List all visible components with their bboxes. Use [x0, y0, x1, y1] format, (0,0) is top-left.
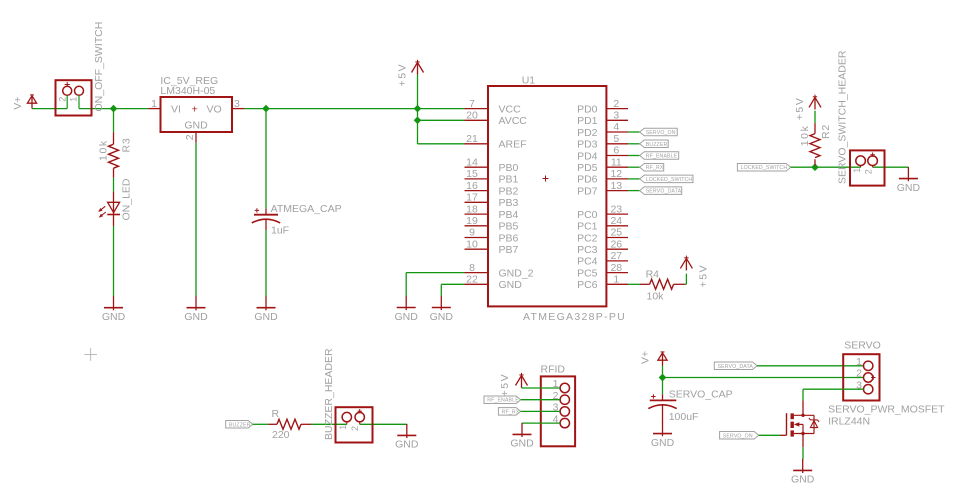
wire R2 to +5V	[814, 111, 816, 123]
svg-text:ON_OFF_SWITCH: ON_OFF_SWITCH	[93, 22, 105, 112]
svg-text:SERVO_ON: SERVO_ON	[723, 433, 753, 439]
svg-text:+5V: +5V	[794, 97, 806, 121]
svg-text:21: 21	[466, 133, 478, 145]
svg-text:PD5: PD5	[577, 162, 598, 174]
svg-text:12: 12	[610, 168, 622, 180]
wire mosfet source to ground	[802, 434, 804, 460]
node RF_ENABLE net flag	[484, 396, 521, 404]
wire SERVO_CAP to ground	[662, 422, 664, 424]
wire to AREF pin	[418, 143, 465, 145]
svg-text:9: 9	[469, 227, 475, 239]
wire V+ rail to switch pin 2	[32, 108, 67, 110]
svg-text:10k: 10k	[799, 125, 811, 147]
svg-text:PB4: PB4	[499, 209, 519, 221]
transistor Q1 SERVO_PWR_MOSFET IRLZ44N	[787, 401, 946, 437]
svg-text:18: 18	[466, 203, 478, 215]
svg-text:RF_ENABLE: RF_ENABLE	[646, 154, 678, 160]
ground GND buzzer	[395, 424, 419, 451]
svg-text:GND: GND	[102, 311, 126, 323]
wire rail down to ATMEGA_CAP	[265, 109, 267, 209]
wire GND_2 pin 8 to ground	[406, 273, 464, 297]
power V+ supply arrow	[12, 95, 37, 110]
wire PD pin to LOCKED_SWITCH flag	[628, 178, 640, 180]
svg-text:GND: GND	[395, 439, 419, 451]
svg-text:R4: R4	[646, 269, 660, 281]
svg-text:2: 2	[613, 98, 619, 110]
node origin cross marker	[84, 348, 97, 361]
wire buzzer header pin 2 to ground corner	[360, 423, 407, 425]
svg-text:RF_RX: RF_RX	[646, 165, 664, 171]
wire buzzer header to ground	[406, 423, 408, 425]
svg-text:SERVO_ON: SERVO_ON	[646, 130, 676, 136]
svg-text:SERVO_PWR_MOSFET: SERVO_PWR_MOSFET	[828, 403, 945, 415]
junction node servo V+	[659, 374, 667, 382]
svg-text:GND_2: GND_2	[499, 267, 534, 279]
svg-text:PB0: PB0	[499, 162, 519, 174]
wire PD pin to BUZZER flag	[628, 143, 640, 145]
svg-text:PD7: PD7	[577, 185, 598, 197]
svg-text:+5V: +5V	[499, 373, 511, 397]
ground GND servo switch	[897, 167, 921, 194]
node RF_RX net flag	[498, 408, 520, 416]
wire PD pin to SERVO_DATA flag	[628, 190, 640, 192]
svg-text:GND: GND	[395, 311, 419, 323]
node SERVO_DATA net flag	[640, 187, 682, 195]
svg-text:AVCC: AVCC	[499, 115, 528, 127]
wire BUZZER flag to resistor	[253, 423, 269, 425]
ground GND for pin 22	[430, 296, 454, 323]
wire junction down to R3	[113, 109, 115, 133]
capacitor SERVO_CAP 100uF polarized	[648, 389, 732, 423]
svg-text:GND: GND	[184, 311, 208, 323]
svg-text:PB6: PB6	[499, 232, 519, 244]
svg-text:V+: V+	[639, 351, 651, 364]
svg-text:23: 23	[610, 203, 622, 215]
svg-text:2: 2	[856, 368, 862, 380]
svg-text:2: 2	[350, 426, 360, 431]
wire LOCKED_SWITCH to switch pin 1	[791, 166, 861, 168]
svg-text:BUZZER: BUZZER	[646, 142, 668, 148]
power +5V arrow at RFID pin 1	[499, 373, 528, 397]
wire GND pin 22 to ground	[441, 284, 464, 296]
svg-text:PB1: PB1	[499, 174, 519, 186]
svg-text:ATMEGA_CAP: ATMEGA_CAP	[271, 203, 342, 215]
node LOCKED_SWITCH net flag	[737, 163, 790, 171]
ground GND below LED	[102, 296, 126, 323]
svg-text:+5V: +5V	[397, 63, 409, 87]
svg-text:GND: GND	[254, 311, 278, 323]
svg-text:PC6: PC6	[577, 279, 598, 291]
svg-text:17: 17	[466, 192, 478, 204]
svg-text:GND: GND	[184, 120, 208, 132]
wire junction to servo pin 2	[663, 377, 864, 379]
ground GND below regulator	[184, 296, 208, 323]
svg-text:28: 28	[610, 262, 622, 274]
wire SERVO_ON to mosfet gate	[759, 434, 787, 436]
svg-text:SERVO_CAP: SERVO_CAP	[669, 389, 733, 401]
svg-text:11: 11	[611, 156, 622, 168]
svg-text:BUZZER_HEADER: BUZZER_HEADER	[323, 348, 335, 440]
svg-text:PC1: PC1	[577, 221, 598, 233]
junction node AVCC row	[414, 116, 422, 124]
node BUZZER net flag	[226, 421, 253, 429]
svg-text:1: 1	[856, 356, 862, 368]
wire +5V down to AREF row	[417, 75, 419, 144]
svg-text:220: 220	[272, 429, 290, 441]
svg-text:RFID: RFID	[541, 364, 566, 376]
svg-text:SERVO: SERVO	[844, 340, 881, 352]
wire R4 to +5V	[685, 274, 687, 285]
resistor R3 10k	[98, 132, 133, 178]
wire PD pin to RF_RX flag	[628, 166, 640, 168]
wire +5V to RFID pin 1	[522, 387, 561, 390]
ground GND for pin 8	[395, 296, 419, 323]
svg-text:14: 14	[466, 156, 478, 168]
header SERVO_SWITCH_HEADER	[837, 50, 885, 185]
svg-text:GND: GND	[499, 279, 523, 291]
svg-text:25: 25	[610, 227, 622, 239]
svg-text:1: 1	[338, 425, 348, 430]
svg-text:PC2: PC2	[577, 232, 598, 244]
wire RF_ENABLE to RFID pin 2	[521, 399, 561, 401]
wire RF_RX to RFID pin 3	[521, 410, 561, 412]
svg-text:U1: U1	[522, 74, 536, 86]
wire R3 to LED	[113, 178, 115, 192]
svg-text:15: 15	[466, 168, 478, 180]
svg-text:R3: R3	[121, 137, 133, 152]
svg-text:19: 19	[466, 215, 478, 227]
svg-text:IRLZ44N: IRLZ44N	[828, 415, 870, 427]
svg-text:22: 22	[466, 274, 478, 286]
header BUZZER_HEADER	[323, 348, 373, 443]
svg-text:1uF: 1uF	[271, 225, 289, 237]
wire regulator pin 2 to ground	[195, 143, 197, 297]
wire SERVO_DATA to servo pin 1	[757, 365, 864, 367]
svg-text:GND: GND	[897, 182, 921, 194]
svg-text:VO: VO	[207, 103, 222, 115]
svg-text:5: 5	[613, 133, 619, 145]
wire RFID pin 4 to ground	[522, 422, 560, 424]
svg-text:100uF: 100uF	[669, 411, 699, 423]
wire switch pin 1 to regulator pin 1	[79, 108, 148, 110]
IC U1 ATMEGA328P-PU microcontroller	[465, 74, 629, 323]
junction node at switch output	[110, 105, 118, 113]
svg-text:R2: R2	[820, 124, 832, 139]
svg-text:PB3: PB3	[499, 197, 519, 209]
svg-text:1: 1	[69, 97, 79, 102]
svg-text:PB7: PB7	[499, 244, 519, 256]
svg-text:PC0: PC0	[577, 209, 598, 221]
svg-text:RF_ENABLE: RF_ENABLE	[487, 398, 519, 404]
wire resistor to buzzer header pin 1	[311, 423, 347, 425]
node SERVO_ON net flag	[640, 128, 678, 136]
svg-text:SERVO_DATA: SERVO_DATA	[718, 364, 754, 370]
wire switch pin 2 to ground corner	[873, 166, 909, 168]
svg-text:10k: 10k	[98, 139, 110, 161]
svg-text:PC4: PC4	[577, 256, 598, 268]
power +5V arrow at R4	[680, 256, 709, 288]
header SERVO	[843, 340, 881, 401]
svg-text:GND: GND	[791, 474, 815, 486]
power V+ arrow servo	[639, 351, 667, 366]
svg-text:PB2: PB2	[499, 185, 519, 197]
svg-text:16: 16	[466, 180, 478, 192]
resistor R2 10k	[799, 123, 832, 165]
power +5V arrow at R2	[794, 95, 821, 121]
ground GND mosfet	[791, 459, 815, 486]
svg-text:PC3: PC3	[577, 244, 598, 256]
svg-text:ON_LED: ON_LED	[121, 178, 133, 220]
wire ATMEGA_CAP to ground	[265, 230, 267, 297]
svg-text:PD1: PD1	[577, 115, 598, 127]
svg-text:1: 1	[852, 168, 862, 173]
wire LED to ground	[113, 226, 115, 297]
svg-text:3: 3	[613, 110, 619, 122]
svg-text:1: 1	[613, 274, 619, 286]
svg-text:13: 13	[610, 180, 622, 192]
svg-text:LM340H-05: LM340H-05	[160, 85, 215, 97]
switch ON_OFF_SWITCH	[56, 22, 106, 116]
node RF_RX net flag	[640, 163, 664, 171]
svg-text:AREF: AREF	[499, 139, 527, 151]
node LOCKED_SWITCH net flag	[640, 175, 693, 183]
svg-text:RF_RX: RF_RX	[502, 409, 520, 415]
svg-text:PD4: PD4	[577, 150, 598, 162]
svg-text:PC5: PC5	[577, 267, 598, 279]
ground GND servo cap	[651, 422, 675, 449]
svg-text:20: 20	[466, 110, 478, 122]
svg-text:2: 2	[184, 134, 196, 140]
ground GND below ATMEGA_CAP	[254, 296, 278, 323]
wire regulator output rail	[244, 108, 464, 110]
ground GND RFID	[510, 423, 534, 450]
svg-text:4: 4	[613, 121, 619, 133]
svg-text:GND: GND	[651, 437, 675, 449]
header RFID	[541, 364, 576, 447]
svg-text:ATMEGA328P-PU: ATMEGA328P-PU	[523, 311, 626, 323]
svg-text:SERVO_DATA: SERVO_DATA	[646, 189, 682, 195]
voltage regulator IC_5V_REG LM340H-05	[148, 75, 244, 143]
svg-text:PD6: PD6	[577, 174, 598, 186]
wire servo pin 3 to mosfet drain	[803, 389, 864, 400]
svg-text:27: 27	[610, 250, 622, 262]
svg-text:6: 6	[613, 145, 619, 157]
svg-text:GND: GND	[510, 438, 534, 450]
svg-text:LOCKED_SWITCH: LOCKED_SWITCH	[741, 165, 788, 171]
node RF_ENABLE net flag	[640, 152, 679, 160]
svg-text:26: 26	[610, 238, 622, 250]
svg-text:PB5: PB5	[499, 221, 519, 233]
svg-text:SERVO_SWITCH_HEADER: SERVO_SWITCH_HEADER	[837, 50, 849, 184]
svg-text:V+: V+	[12, 97, 24, 110]
wire PC6 to R4	[628, 283, 640, 285]
junction node VCC row	[414, 105, 422, 113]
power +5V arrow above U1	[397, 60, 424, 87]
svg-text:LOCKED_SWITCH: LOCKED_SWITCH	[646, 177, 693, 183]
wire junction down to SERVO_CAP	[662, 378, 664, 395]
svg-text:VI: VI	[171, 103, 181, 115]
svg-text:+5V: +5V	[698, 264, 710, 288]
svg-text:VCC: VCC	[499, 103, 522, 115]
svg-text:PD2: PD2	[577, 127, 598, 139]
resistor R 220	[269, 408, 312, 441]
junction node at capacitor tap	[262, 105, 270, 113]
wire PD pin to RF_ENABLE flag	[628, 155, 640, 157]
wire servo switch header to ground	[907, 166, 909, 168]
svg-text:24: 24	[610, 215, 622, 227]
wire V+ down to junction	[662, 366, 664, 378]
node SERVO_DATA net flag	[714, 362, 757, 370]
svg-text:10: 10	[466, 238, 478, 250]
capacitor ATMEGA_CAP 1uF polarized	[252, 203, 342, 237]
wire to AVCC pin	[418, 119, 465, 121]
svg-text:1: 1	[151, 98, 157, 110]
junction node R2 tap	[811, 163, 819, 171]
svg-text:3: 3	[234, 98, 240, 110]
LED ON_LED	[98, 178, 132, 226]
svg-text:7: 7	[469, 98, 475, 110]
svg-text:10k: 10k	[647, 290, 665, 302]
svg-text:PD0: PD0	[577, 103, 598, 115]
svg-text:R: R	[272, 408, 280, 420]
node BUZZER net flag	[640, 140, 669, 148]
svg-text:2: 2	[57, 97, 67, 102]
wire PD pin to SERVO_ON flag	[628, 131, 640, 133]
node SERVO_ON net flag	[720, 432, 759, 440]
svg-text:+: +	[192, 103, 198, 115]
svg-text:PD3: PD3	[577, 139, 598, 151]
resistor R4 10k	[640, 269, 685, 303]
svg-text:GND: GND	[430, 311, 454, 323]
svg-text:2: 2	[864, 169, 874, 174]
svg-text:8: 8	[469, 262, 475, 274]
svg-text:BUZZER: BUZZER	[229, 422, 251, 428]
